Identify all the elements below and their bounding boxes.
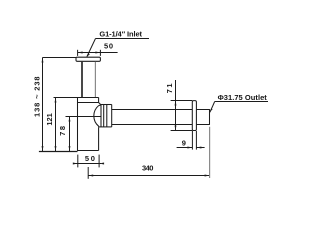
- svg-text:9: 9: [182, 139, 186, 148]
- svg-text:50: 50: [85, 154, 95, 163]
- svg-text:340: 340: [142, 164, 154, 173]
- svg-text:78: 78: [58, 126, 67, 136]
- svg-text:Φ31.75 Outlet: Φ31.75 Outlet: [218, 93, 268, 102]
- svg-text:121: 121: [45, 113, 54, 125]
- svg-text:G1-1/4″ Inlet: G1-1/4″ Inlet: [99, 30, 142, 39]
- svg-text:50: 50: [104, 42, 113, 51]
- svg-text:138 ~ 238: 138 ~ 238: [33, 76, 42, 117]
- svg-text:71: 71: [165, 83, 174, 93]
